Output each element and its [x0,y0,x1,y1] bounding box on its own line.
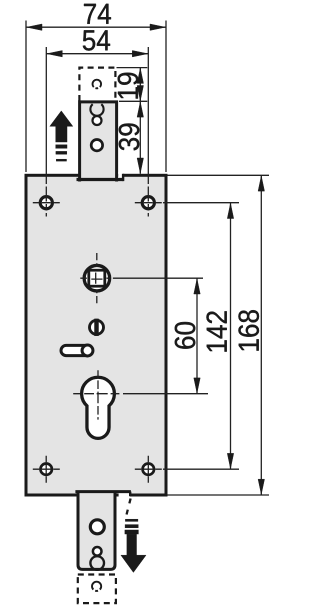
extension line 142 top [163,202,239,204]
top bolt spring arc [90,104,103,116]
bottom bolt [78,491,115,569]
bottom slot gap (white) [119,493,130,497]
extension line 142 bottom [163,468,239,470]
bolt travel arrow up [50,111,73,126]
top slot edge [77,178,124,181]
dimension 142 [230,203,232,470]
bottom bolt spring circle [90,556,104,570]
bottom slot step right [129,492,131,497]
screw hole bottom-left [41,464,52,475]
screw hole top-right [142,197,154,209]
cylinder centerline vertical [97,370,99,419]
top bolt [80,102,117,182]
top slot gap (white) [118,172,123,178]
top slot step [122,174,124,181]
dimension 19 [117,67,148,69]
spindle follower [84,265,110,291]
bottom bolt extended hole (dashed circle) [92,582,101,591]
bolt travel arrow down dashes [125,499,130,520]
crosshair bottom-left hole [33,468,60,470]
slide capsule [61,345,92,355]
dimension 54 [45,47,47,175]
top bolt extended position (dashed outline) [79,68,115,101]
crosshair top-left hole [33,202,60,204]
spindle centerline horizontal / extension 60 top [80,277,203,280]
bolt travel arrow down [127,534,137,556]
dimension 168 [168,174,270,176]
top bolt small ring [93,116,102,125]
spindle centerline vertical [96,253,97,303]
bottom slot edge [75,490,130,493]
bottom bolt extended position (dashed outline) [78,575,116,604]
dimension 39 [139,101,141,174]
screw hole top-left [40,197,52,209]
dimension 60 [196,278,198,394]
lock case plate [26,175,166,495]
cylinder centerline horizontal / extension 60 bottom [73,393,208,395]
cylinder keyhole [82,377,115,438]
slide pin [82,345,93,356]
dimension 74 [25,21,27,173]
top bolt extended hole (dashed circle) [93,80,102,89]
slotted disc [90,320,104,334]
top bolt hole [91,140,102,151]
crosshair top-right hole [135,202,162,204]
bottom bolt hole [90,520,104,534]
screw hole bottom-right [143,464,154,475]
bottom bolt small ring [93,547,102,556]
crosshair bottom-right hole [135,468,162,470]
spindle square [89,270,105,286]
